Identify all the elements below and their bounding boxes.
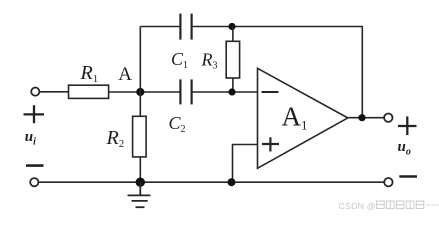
- minus input sign: [262, 91, 279, 93]
- wire C1 to top-right corner: [192, 27, 363, 118]
- resistor R3: [226, 41, 239, 78]
- svg-text:R1: R1: [80, 62, 99, 85]
- wire R2 bottom: [139, 157, 141, 182]
- wire C2 to opamp inverting input: [192, 91, 258, 93]
- junction ground node: [136, 178, 145, 187]
- svg-text:uo: uo: [398, 139, 411, 158]
- capacitor C2: [180, 79, 191, 104]
- wire R3 top stub: [232, 27, 234, 42]
- bottom rail: [39, 181, 385, 183]
- svg-text:CSDN @: CSDN @: [339, 201, 376, 211]
- junction top node: [228, 23, 235, 30]
- wire R2 top: [139, 92, 141, 116]
- wire noninverting input: [233, 145, 258, 183]
- plus sign input port: [24, 105, 45, 123]
- resistor R1: [69, 85, 109, 98]
- svg-text:A: A: [118, 64, 132, 85]
- wire opamp output: [348, 117, 384, 119]
- junction noninverting rail: [228, 178, 236, 186]
- output terminal +: [384, 114, 392, 122]
- wire input to R1: [40, 91, 69, 93]
- wire node A up: [139, 27, 141, 93]
- svg-text:C2: C2: [169, 113, 186, 135]
- plus input sign: [262, 137, 279, 151]
- svg-text:R2: R2: [106, 127, 125, 150]
- wire top to C1: [140, 26, 179, 28]
- svg-text:ui: ui: [25, 129, 36, 148]
- wire R3 bottom stub: [232, 78, 234, 92]
- capacitor C1: [180, 14, 191, 40]
- svg-text:C1: C1: [171, 49, 188, 71]
- input terminal +: [31, 88, 39, 96]
- minus sign input port: [26, 164, 44, 167]
- ground: [128, 182, 151, 207]
- input terminal -: [30, 178, 38, 186]
- watermark CSDN: [339, 200, 439, 211]
- junction inverting node: [228, 88, 235, 95]
- resistor R2: [133, 116, 147, 157]
- plus sign output port: [398, 116, 417, 135]
- output terminal -: [384, 178, 392, 186]
- output junction: [358, 114, 365, 121]
- minus sign output port: [399, 175, 417, 177]
- wire R1 to C2: [109, 91, 180, 93]
- node A: [136, 88, 144, 96]
- op-amp A1: [258, 68, 348, 168]
- svg-text:R3: R3: [201, 50, 218, 72]
- svg-text:~~~: ~~~: [426, 200, 439, 210]
